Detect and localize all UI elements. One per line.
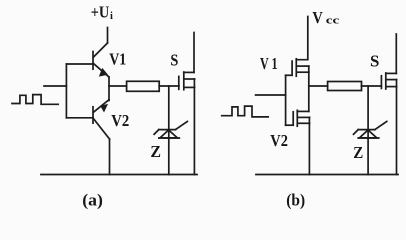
wire base bus to V1 base — [66, 63, 93, 65]
resistor (gate series, figure b) — [328, 82, 362, 91]
wire base bus joining V1 and V2 bases — [65, 64, 67, 118]
svg-text:V: V — [312, 8, 323, 27]
transistor V1 (NPN) — [93, 43, 109, 77]
MOSFET S (a) — [179, 72, 195, 90]
wire Vcc down to V1 drain elbow (b) — [296, 17, 308, 60]
zener diode Z (a) — [154, 121, 187, 138]
input square wave signal (b) — [222, 106, 269, 117]
svg-text:(b): (b) — [286, 191, 305, 210]
wire S drain up (a) — [193, 33, 195, 73]
wire junction down to zener Z (a) — [168, 86, 170, 175]
wire V2 collector down to rail (a) — [109, 139, 111, 175]
MOSFET S (b) — [381, 73, 396, 89]
supply Vcc label — [312, 8, 339, 27]
wire S drain up (b) — [395, 34, 397, 73]
wire gate bus to V2 gate (b) — [286, 124, 294, 126]
wire base bus to V2 base — [66, 117, 93, 119]
wire emitter output node vertical (a) — [108, 77, 110, 101]
supply +Ui label — [91, 2, 113, 21]
svg-text:V 1: V 1 — [260, 54, 278, 73]
transistor V2 (PNP) — [93, 100, 110, 139]
wire S source and body down to rail (b) — [396, 80, 398, 175]
svg-text:V2: V2 — [111, 111, 129, 130]
wire gate bus to V1 gate (b) — [286, 74, 293, 76]
wire junction down to zener Z (b) — [367, 86, 369, 175]
resistor (gate series, figure a) — [127, 81, 160, 91]
wire resistor to gate of S (b) — [362, 85, 382, 87]
svg-text:V1: V1 — [109, 49, 126, 68]
svg-text:(a): (a) — [82, 190, 103, 209]
wire input to gate bus (b) — [256, 94, 286, 96]
wire output node vertical (b) — [308, 66, 310, 111]
MOSFET V1 (b) — [292, 59, 309, 76]
wire V2 source and body down to rail (b) — [308, 117, 310, 174]
wire from +Ui supply down to V1 collector — [107, 28, 109, 44]
wire output node to gate resistor (a) — [109, 85, 127, 87]
svg-text:S: S — [170, 50, 178, 69]
svg-text:i: i — [110, 11, 113, 22]
wire input to base bus (a) — [44, 85, 66, 87]
wire gate bus joining V1 and V2 gates (b) — [285, 75, 287, 125]
svg-text:cc: cc — [326, 16, 340, 27]
svg-text:V2: V2 — [270, 131, 288, 150]
input square wave signal (a) — [12, 95, 58, 105]
svg-text:S: S — [370, 51, 379, 70]
wire resistor to gate of S (a) — [159, 85, 179, 87]
svg-text:Z: Z — [353, 143, 363, 162]
wire output node to gate resistor (b) — [309, 85, 328, 87]
MOSFET V2 (b) — [293, 110, 309, 126]
ground rail (b) — [256, 174, 398, 176]
wire S source and body down to rail (a) — [193, 79, 195, 175]
svg-text:Z: Z — [150, 142, 161, 161]
zener diode Z (b) — [354, 121, 387, 138]
ground rail (a) — [41, 174, 197, 176]
svg-text:+U: +U — [91, 2, 110, 21]
